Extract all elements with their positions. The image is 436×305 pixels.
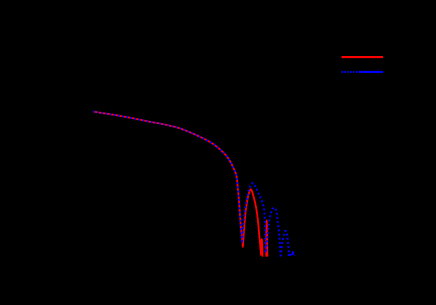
red solid curve (main + sidelobes 1-2) [93, 112, 263, 267]
legend red line [342, 56, 384, 58]
red solid curve sidelobe 3 [266, 221, 267, 267]
legend blue line dotted part [342, 71, 361, 73]
blue curve lobe4 dot blob [292, 252, 294, 255]
blue dotted curve [93, 112, 295, 256]
legend blue line solid part [360, 71, 383, 73]
blue curve lobe4 bottom merged dots [288, 254, 291, 256]
